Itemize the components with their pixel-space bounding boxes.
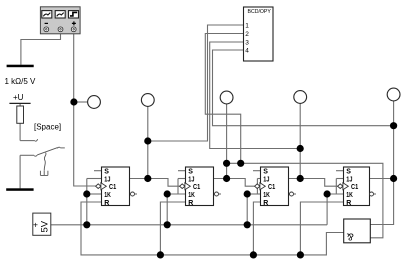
svg-text:1J: 1J — [263, 177, 269, 184]
svg-text:R: R — [263, 200, 268, 207]
svg-text:5V: 5V — [40, 220, 51, 232]
svg-text:1J: 1J — [104, 177, 110, 184]
svg-text:R: R — [188, 200, 193, 207]
svg-text:C1: C1 — [268, 184, 275, 191]
svg-text:3: 3 — [245, 40, 249, 47]
svg-text:1K: 1K — [188, 192, 195, 199]
svg-text:+U: +U — [13, 93, 24, 102]
svg-text:C1: C1 — [193, 184, 200, 191]
svg-text:R: R — [104, 200, 109, 207]
svg-text:S: S — [188, 169, 193, 176]
svg-text:+: + — [33, 220, 38, 230]
svg-text:4: 4 — [245, 48, 249, 55]
svg-text:1: 1 — [245, 23, 249, 30]
svg-text:BCD/OPY: BCD/OPY — [248, 9, 272, 15]
svg-text:&: & — [347, 231, 354, 243]
svg-text:C1: C1 — [109, 184, 116, 191]
svg-text:1K: 1K — [346, 192, 353, 199]
svg-text:2: 2 — [245, 31, 249, 38]
svg-text:1J: 1J — [188, 177, 194, 184]
svg-text:R: R — [346, 200, 351, 207]
svg-text:1K: 1K — [104, 192, 111, 199]
svg-text:S: S — [346, 169, 351, 176]
svg-text:C1: C1 — [351, 184, 358, 191]
svg-text:1J: 1J — [346, 177, 352, 184]
svg-text:1K: 1K — [263, 192, 270, 199]
svg-text:[Space]: [Space] — [34, 123, 61, 132]
svg-text:1 kΩ/5 V: 1 kΩ/5 V — [5, 77, 37, 86]
svg-text:S: S — [104, 169, 109, 176]
svg-text:S: S — [263, 169, 268, 176]
